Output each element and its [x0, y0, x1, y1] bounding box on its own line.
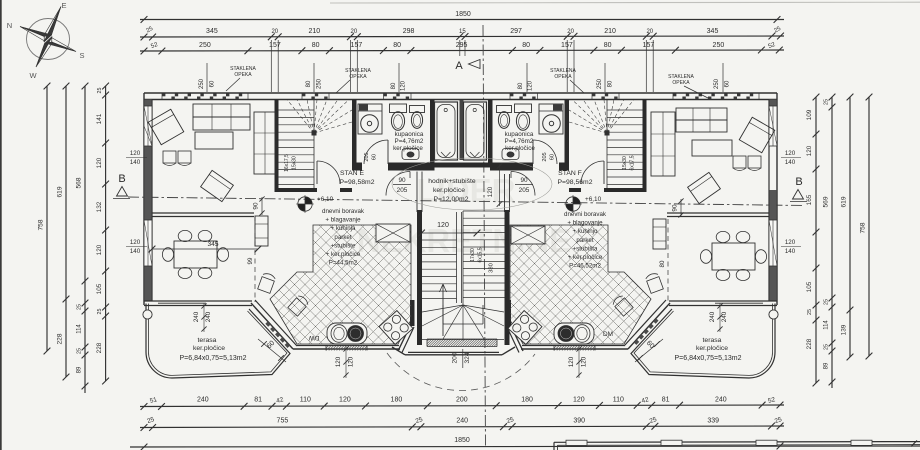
bay south wall right	[521, 348, 628, 350]
svg-text:755: 755	[277, 418, 289, 425]
svg-text:180: 180	[391, 397, 403, 404]
svg-text:hodnik+stubište: hodnik+stubište	[428, 178, 476, 185]
svg-text:25: 25	[97, 309, 103, 315]
svg-text:80: 80	[312, 42, 320, 49]
svg-text:+stubišta: +stubišta	[573, 245, 598, 252]
svg-text:240: 240	[193, 311, 200, 322]
svg-text:P=4,76m2: P=4,76m2	[505, 138, 534, 145]
svg-text:B: B	[795, 176, 802, 188]
svg-text:120: 120	[96, 244, 103, 255]
svg-text:6x15,5: 6x15,5	[478, 247, 484, 262]
svg-text:120: 120	[573, 397, 585, 404]
dim 345 table	[152, 248, 258, 250]
svg-text:105: 105	[806, 281, 813, 292]
svg-text:250: 250	[713, 42, 725, 49]
right dim column 569 chain	[831, 97, 833, 388]
interior wall dining left	[152, 212, 254, 214]
svg-text:A: A	[455, 60, 463, 72]
svg-text:157: 157	[269, 42, 281, 49]
door arc hall right	[511, 172, 535, 196]
glass brick strips top wall	[162, 93, 248, 100]
svg-text:120: 120	[785, 239, 796, 246]
bar stool right 1	[645, 272, 663, 293]
armchair tilted left	[148, 109, 184, 145]
svg-text:120: 120	[785, 150, 796, 157]
svg-text:240: 240	[709, 311, 716, 322]
svg-text:DW: DW	[308, 334, 320, 341]
svg-text:ker.pločice: ker.pločice	[433, 187, 465, 194]
svg-text:P=98,58m2: P=98,58m2	[340, 179, 375, 186]
svg-text:99: 99	[247, 257, 254, 264]
window right 1	[769, 106, 777, 146]
svg-text:120: 120	[401, 80, 407, 91]
svg-text:ker.pločice: ker.pločice	[393, 145, 423, 152]
terrace left outline	[146, 304, 290, 379]
svg-text:339: 339	[707, 418, 719, 425]
bathroom divider wall left	[352, 100, 357, 167]
washing machine right	[539, 104, 563, 134]
svg-text:17x30: 17x30	[470, 248, 476, 262]
svg-text:89: 89	[77, 366, 83, 373]
internal stair right	[607, 109, 643, 111]
svg-text:324: 324	[464, 352, 471, 363]
svg-text:250: 250	[199, 78, 205, 89]
central stair winder fan	[422, 305, 463, 312]
left dim column 619/228	[65, 86, 67, 377]
svg-text:60: 60	[725, 80, 731, 87]
svg-text:298: 298	[403, 28, 415, 35]
svg-text:345: 345	[207, 241, 218, 248]
svg-text:dnevni boravak: dnevni boravak	[564, 211, 607, 218]
dimension row 3 bottom 1850	[130, 446, 920, 447]
svg-text:20: 20	[567, 29, 574, 35]
svg-text:240: 240	[205, 311, 212, 322]
central stair rails	[456, 212, 458, 303]
bar stool left 1	[258, 272, 276, 293]
central stair steps right flight	[463, 210, 505, 212]
bidet left	[410, 106, 425, 113]
svg-text:+ ker.pločice: + ker.pločice	[326, 251, 361, 258]
fridge left	[255, 216, 268, 246]
dim 90 opening left	[261, 197, 263, 215]
bay south wall left	[293, 348, 400, 350]
svg-text:ker.pločice: ker.pločice	[696, 345, 728, 352]
section axis A vertical	[483, 25, 486, 447]
bathtub left	[435, 102, 458, 160]
terrace dim 60 left	[258, 339, 286, 362]
dashed line kitchen right	[667, 219, 669, 302]
svg-text:619: 619	[841, 196, 848, 207]
scan edge top	[330, 1, 920, 4]
svg-text:205: 205	[542, 152, 548, 161]
bay NE chamfer left	[398, 324, 411, 351]
bathroom divider wall right2	[488, 100, 493, 163]
svg-text:1850: 1850	[455, 11, 471, 18]
two chairs left	[163, 151, 176, 163]
svg-text:297: 297	[510, 28, 522, 35]
basin left	[402, 149, 419, 160]
svg-text:20: 20	[271, 29, 278, 35]
svg-text:114: 114	[824, 320, 830, 330]
wall below stair right	[604, 188, 643, 192]
svg-text:120: 120	[130, 150, 141, 157]
stove right	[508, 311, 542, 345]
scan edge left	[0, 0, 2, 450]
bathtub right	[464, 102, 487, 160]
bar stool right 2	[611, 294, 633, 316]
svg-text:N: N	[7, 21, 12, 30]
stairwell west wall	[416, 172, 418, 213]
WC right	[515, 104, 532, 113]
svg-text:+ blagavanje: + blagavanje	[325, 217, 361, 224]
svg-text:758: 758	[38, 219, 45, 230]
dimension row 2 top	[140, 36, 784, 37]
living divider wall left	[275, 100, 279, 193]
svg-text:165: 165	[806, 194, 813, 205]
central stair steps left flight	[422, 239, 457, 241]
door arc living right	[581, 161, 604, 184]
svg-text:P=4,76m2: P=4,76m2	[395, 138, 424, 145]
svg-text:15: 15	[459, 29, 466, 35]
two chairs right	[733, 156, 746, 168]
hodnik ellipse	[392, 158, 552, 210]
svg-text:758: 758	[860, 222, 867, 233]
window right 2	[769, 220, 777, 266]
leader lines top	[206, 63, 208, 92]
left dim column inner chain	[105, 86, 107, 381]
svg-text:+6,10: +6,10	[317, 196, 334, 203]
svg-text:+ kuhinja: + kuhinja	[331, 225, 356, 232]
svg-text:20: 20	[351, 29, 358, 35]
lounge chair right	[688, 172, 721, 203]
svg-text:B: B	[118, 173, 125, 185]
svg-text:205: 205	[519, 187, 530, 194]
basin right	[502, 149, 519, 160]
svg-text:210: 210	[308, 28, 320, 35]
svg-text:228: 228	[57, 333, 64, 344]
svg-text:120: 120	[437, 222, 449, 229]
compass rose	[27, 19, 70, 60]
svg-text:157: 157	[643, 42, 655, 49]
sofa right	[676, 108, 727, 120]
svg-text:parket: parket	[576, 237, 593, 244]
svg-text:345: 345	[206, 28, 218, 35]
counter DW left	[327, 323, 367, 344]
svg-text:90: 90	[253, 202, 260, 210]
porch face entry	[405, 354, 502, 356]
svg-text:+ kuhinjo: + kuhinjo	[573, 228, 598, 235]
svg-text:200: 200	[456, 397, 468, 404]
svg-text:25: 25	[824, 344, 830, 350]
WC left	[390, 104, 407, 113]
bar stool left 2	[288, 294, 310, 316]
stove left	[379, 311, 413, 345]
svg-text:240: 240	[721, 311, 728, 322]
svg-text:240: 240	[715, 397, 727, 404]
svg-text:80: 80	[604, 42, 612, 49]
svg-text:180: 180	[521, 397, 533, 404]
svg-text:80: 80	[608, 80, 614, 87]
compass needle NW-SE	[20, 27, 52, 37]
door arc bath left	[364, 140, 388, 164]
svg-text:OPEKA: OPEKA	[349, 74, 367, 80]
svg-text:25: 25	[824, 299, 830, 305]
svg-text:619: 619	[57, 186, 64, 197]
bathroom divider wall left2	[430, 100, 435, 163]
svg-text:P=46,52m2: P=46,52m2	[569, 263, 601, 270]
svg-text:6x17,5: 6x17,5	[630, 155, 636, 170]
entry dashed arc	[387, 353, 535, 391]
svg-text:200: 200	[452, 352, 459, 363]
glass on chamfer left	[265, 321, 270, 326]
svg-text:80: 80	[393, 42, 401, 49]
svg-text:90: 90	[672, 204, 679, 212]
left dim column 758	[46, 86, 48, 351]
svg-text:205: 205	[397, 187, 408, 194]
central stair arrow up	[442, 285, 444, 336]
bay NW chamfer right	[510, 324, 523, 351]
svg-text:S: S	[79, 51, 84, 60]
svg-text:228: 228	[806, 338, 813, 349]
svg-text:120: 120	[339, 397, 351, 404]
internal stair left	[279, 109, 315, 111]
dimension row total 1850 top	[140, 19, 784, 21]
svg-text:81: 81	[254, 397, 262, 404]
door arc hall left	[386, 172, 410, 196]
svg-text:120: 120	[335, 356, 342, 367]
svg-text:P=12,00m2: P=12,00m2	[434, 196, 469, 203]
svg-text:80: 80	[518, 82, 524, 89]
svg-text:120: 120	[806, 145, 813, 156]
svg-text:60: 60	[550, 154, 556, 160]
svg-text:kupaonica: kupaonica	[505, 131, 534, 138]
dining table right	[712, 243, 755, 270]
svg-text:345: 345	[707, 28, 719, 35]
svg-text:568: 568	[76, 177, 83, 188]
svg-text:terasa: terasa	[703, 337, 722, 344]
window left 2	[144, 220, 152, 266]
stairwell east wall	[504, 174, 506, 212]
svg-text:90: 90	[398, 177, 406, 184]
svg-text:kupaonica: kupaonica	[395, 131, 424, 138]
svg-text:140: 140	[130, 248, 141, 255]
svg-text:60: 60	[210, 80, 216, 87]
left dim column 568 chain	[84, 86, 86, 393]
coffee table left	[195, 132, 233, 149]
svg-text:240: 240	[456, 418, 468, 425]
svg-text:139: 139	[841, 324, 848, 335]
svg-text:ker.pločice: ker.pločice	[505, 145, 535, 152]
svg-text:250: 250	[714, 78, 720, 89]
wall below stair left	[279, 188, 318, 192]
sofa left	[193, 104, 250, 117]
svg-text:110: 110	[613, 397, 624, 404]
dimension row 2 bottom	[140, 426, 784, 428]
terrace column right	[769, 310, 778, 319]
svg-text:80: 80	[659, 260, 666, 267]
kitchen cabinet X left	[376, 224, 410, 242]
top outer wall	[144, 92, 777, 94]
svg-text:140: 140	[785, 159, 796, 166]
armchair tilted right	[739, 117, 775, 153]
svg-text:250: 250	[597, 78, 603, 89]
svg-text:P=44,5m2: P=44,5m2	[329, 260, 358, 267]
svg-text:15x30: 15x30	[292, 156, 298, 170]
svg-text:25: 25	[77, 348, 83, 354]
svg-text:205: 205	[364, 152, 370, 161]
svg-text:16x17,5: 16x17,5	[284, 154, 290, 172]
fridge right	[653, 219, 666, 249]
svg-text:157: 157	[351, 42, 363, 49]
svg-text:STAN E: STAN E	[340, 170, 365, 177]
svg-text:250: 250	[317, 78, 323, 89]
svg-text:parket: parket	[334, 234, 351, 241]
terrace dim 60 right	[635, 339, 663, 362]
svg-text:60: 60	[372, 154, 378, 160]
coffee table right	[692, 140, 732, 156]
svg-text:1850: 1850	[454, 437, 470, 444]
interior wall dining right	[667, 212, 769, 214]
svg-text:dnevni boravak: dnevni boravak	[322, 208, 365, 215]
svg-text:OPEKA: OPEKA	[672, 80, 690, 86]
right dim column 619/139	[849, 97, 851, 357]
terrace column left	[143, 310, 152, 319]
terrace right outline	[631, 304, 775, 379]
washing machine left	[358, 104, 382, 134]
svg-text:105: 105	[96, 283, 103, 294]
svg-text:+ ker.pločice: + ker.pločice	[568, 254, 603, 261]
bidet right	[497, 106, 512, 113]
dining table left	[174, 241, 217, 268]
dashed line kitchen left	[254, 216, 256, 302]
svg-text:140: 140	[130, 159, 141, 166]
svg-text:120: 120	[348, 356, 355, 367]
svg-text:132: 132	[96, 201, 103, 212]
svg-text:P=98,56m2: P=98,56m2	[558, 179, 593, 186]
glass on chamfer right	[653, 318, 658, 323]
door arc bath right	[533, 140, 557, 164]
svg-text:110: 110	[300, 397, 311, 404]
south wall living room left + sliding door	[144, 300, 252, 302]
svg-text:80: 80	[306, 80, 312, 87]
bathroom south wall band	[352, 163, 362, 171]
bay wall east left	[410, 300, 415, 326]
svg-text:P=6,84x0,75=5,13m2: P=6,84x0,75=5,13m2	[180, 355, 247, 362]
svg-text:89: 89	[824, 362, 830, 369]
svg-text:+6,10: +6,10	[585, 196, 602, 203]
bay wall west right	[507, 300, 512, 326]
svg-text:W: W	[29, 71, 37, 80]
svg-text:DM: DM	[603, 331, 613, 338]
svg-text:380: 380	[489, 263, 495, 273]
svg-text:80: 80	[391, 82, 397, 89]
winder core box	[442, 305, 444, 324]
living divider wall right	[643, 100, 647, 193]
svg-text:210: 210	[604, 28, 616, 35]
level symbol right	[566, 197, 580, 211]
svg-text:OPEKA: OPEKA	[554, 74, 572, 80]
svg-text:P=6,84x0,75=5,13m2: P=6,84x0,75=5,13m2	[675, 355, 742, 362]
door arc living left	[317, 161, 340, 184]
south wall living room right + sliding door	[669, 300, 777, 302]
svg-text:250: 250	[199, 42, 211, 49]
svg-text:120: 120	[581, 356, 588, 367]
lounge chair left	[201, 170, 234, 201]
svg-text:141: 141	[96, 113, 103, 124]
svg-text:114: 114	[77, 324, 83, 334]
svg-text:390: 390	[573, 418, 585, 425]
svg-text:STAN F: STAN F	[558, 170, 582, 177]
svg-text:+ blagovanje: + blagovanje	[567, 220, 603, 227]
bay chamfer SE right	[628, 303, 670, 349]
right outer wall	[776, 93, 778, 305]
svg-text:295: 295	[456, 42, 468, 49]
svg-text:15x30: 15x30	[622, 156, 628, 170]
left outer wall	[143, 93, 145, 305]
dim 90 opening right	[680, 199, 682, 217]
svg-text:240: 240	[197, 397, 209, 404]
kitchen cabinet X right	[511, 226, 545, 244]
svg-text:+stubište: +stubište	[331, 242, 356, 249]
svg-text:120: 120	[130, 239, 141, 246]
svg-text:OPEKA: OPEKA	[234, 72, 252, 78]
svg-text:140: 140	[785, 248, 796, 255]
svg-text:terasa: terasa	[198, 337, 217, 344]
svg-text:25: 25	[824, 99, 830, 105]
svg-text:80: 80	[522, 42, 530, 49]
section axis B horizontal	[128, 197, 803, 206]
svg-text:20: 20	[646, 29, 653, 35]
next drawing top edge	[554, 441, 920, 444]
svg-text:120: 120	[568, 356, 575, 367]
svg-text:25: 25	[807, 309, 813, 315]
watermark	[357, 172, 572, 259]
svg-text:25: 25	[77, 304, 83, 310]
window left 1	[144, 106, 152, 146]
right dim column 758	[868, 97, 870, 356]
svg-text:E: E	[61, 1, 66, 10]
level symbol left	[298, 197, 312, 211]
corridor dim 120	[422, 232, 478, 234]
counter DM right	[554, 323, 594, 344]
right dim column inner chain	[815, 97, 817, 383]
compass needle NE-SW	[44, 7, 61, 43]
svg-text:120: 120	[528, 80, 534, 91]
bathroom divider wall right	[565, 100, 570, 167]
svg-text:120: 120	[487, 186, 494, 197]
svg-text:90: 90	[520, 177, 528, 184]
svg-text:228: 228	[96, 342, 103, 353]
dining chairs left	[178, 230, 192, 241]
svg-text:569: 569	[823, 196, 830, 207]
svg-text:81: 81	[662, 397, 670, 404]
svg-text:109: 109	[806, 109, 813, 120]
svg-text:25: 25	[97, 88, 103, 94]
svg-text:120: 120	[96, 157, 103, 168]
dimension row 3 top	[140, 50, 784, 51]
bay chamfer SW left	[251, 303, 293, 349]
dimension row 1 bottom	[140, 405, 784, 407]
wall between tubs	[460, 100, 464, 160]
svg-text:ker.pločice: ker.pločice	[193, 345, 225, 352]
dining chairs right	[716, 231, 730, 242]
